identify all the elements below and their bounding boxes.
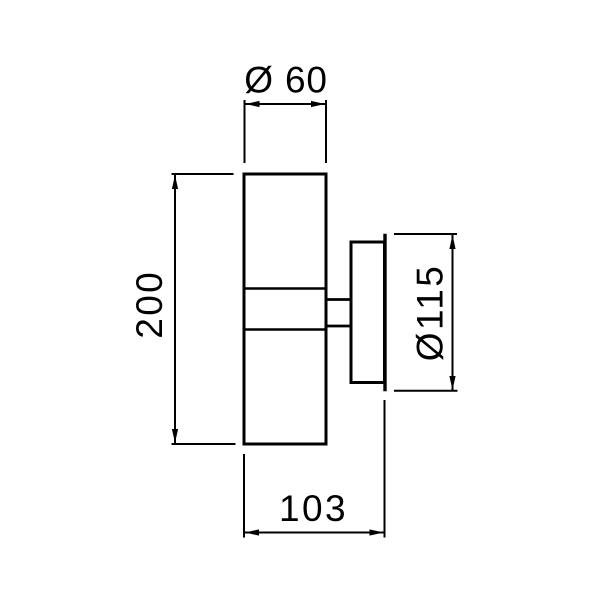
svg-text:Ø 60: Ø 60 <box>244 59 327 100</box>
svg-text:200: 200 <box>129 270 170 339</box>
svg-text:103: 103 <box>279 488 348 529</box>
svg-text:Ø115: Ø115 <box>410 264 451 361</box>
